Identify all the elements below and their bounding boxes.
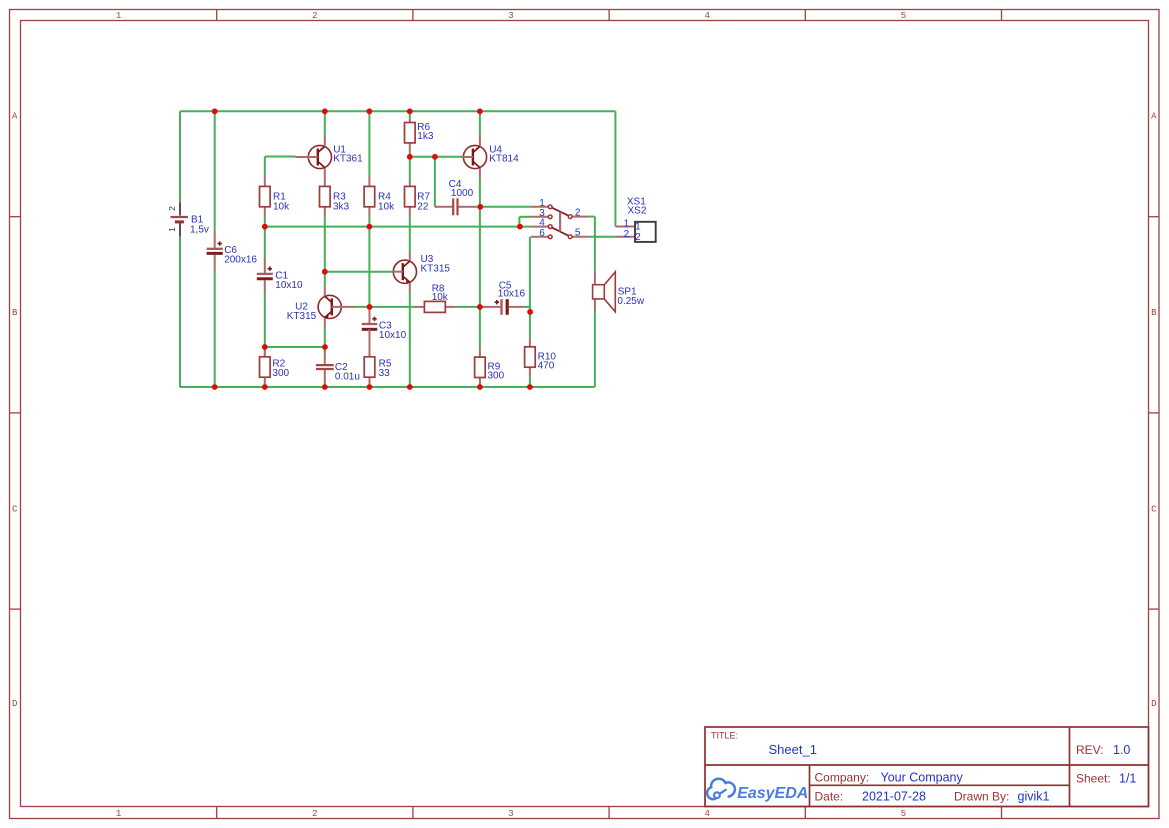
junction C1 / R2 bbox=[262, 344, 268, 350]
switch SA1 arm 4-5 bbox=[552, 227, 569, 236]
svg-text:300: 300 bbox=[272, 368, 289, 379]
wire C1 bottom drop bbox=[264, 294, 266, 347]
wire C6 top connection bbox=[214, 111, 216, 232]
svg-text:A: A bbox=[1151, 112, 1157, 122]
connector XS pin numbers bbox=[624, 218, 642, 243]
svg-text:6: 6 bbox=[539, 228, 545, 239]
transistor U4 bbox=[462, 136, 519, 178]
resistor R3 bbox=[320, 176, 350, 216]
junction top rail / U4 emitter bbox=[477, 108, 483, 114]
wire U2 collector to U3 base bbox=[325, 271, 392, 273]
switch SA1 pin circles bbox=[548, 205, 572, 239]
capacitor C5 (polarized) bbox=[480, 280, 526, 314]
wire R6 bottom link bbox=[409, 152, 411, 157]
junction C4 branch bbox=[432, 154, 438, 160]
wire mid rail to C1 top bbox=[264, 227, 266, 258]
resistor R6 bbox=[405, 117, 434, 152]
wire mid rail bbox=[265, 226, 531, 228]
svg-text:1/1: 1/1 bbox=[1119, 771, 1136, 785]
wire down to U2 collector bbox=[324, 272, 326, 288]
svg-text:5: 5 bbox=[575, 228, 581, 239]
svg-text:KT814: KT814 bbox=[489, 154, 519, 165]
svg-text:3: 3 bbox=[508, 809, 513, 819]
svg-text:10k: 10k bbox=[273, 201, 290, 212]
svg-text:D: D bbox=[12, 699, 17, 709]
svg-text:KT361: KT361 bbox=[333, 154, 363, 165]
wire U2 base to R8 bbox=[354, 306, 414, 308]
title block sheet name bbox=[769, 742, 817, 757]
svg-text:2: 2 bbox=[624, 229, 630, 240]
svg-text:1k3: 1k3 bbox=[417, 131, 434, 142]
capacitor C3 (polarized) bbox=[362, 310, 407, 357]
resistor R9 bbox=[475, 347, 505, 387]
junction ground / C2 bbox=[322, 384, 328, 390]
svg-text:TITLE:: TITLE: bbox=[711, 731, 738, 741]
wire R6/R7 node to U4 base bbox=[410, 156, 462, 158]
svg-text:10x10: 10x10 bbox=[275, 280, 303, 291]
svg-text:1: 1 bbox=[635, 221, 641, 232]
svg-text:0.25w: 0.25w bbox=[617, 296, 644, 307]
wire R7 bottom to U3 collector bbox=[409, 217, 411, 253]
resistor R1 bbox=[260, 176, 291, 216]
svg-text:5: 5 bbox=[901, 809, 906, 819]
title block Date / Drawn By bbox=[815, 789, 1050, 803]
svg-text:1: 1 bbox=[116, 11, 121, 21]
svg-text:1: 1 bbox=[167, 227, 177, 232]
connector XS1/XS2 body bbox=[635, 222, 656, 242]
wire C4 out to SA1 pin1 bbox=[475, 206, 531, 208]
svg-text:givik1: givik1 bbox=[1018, 789, 1050, 803]
svg-text:10k: 10k bbox=[378, 201, 395, 212]
wire to R2 top bbox=[264, 347, 266, 357]
svg-text:D: D bbox=[1151, 699, 1156, 709]
junction ground / R10 bbox=[527, 384, 533, 390]
junction top rail / R4 bbox=[367, 108, 373, 114]
svg-text:4: 4 bbox=[704, 809, 709, 819]
switch SA1 pin leads bbox=[530, 207, 589, 237]
svg-text:1: 1 bbox=[116, 809, 121, 819]
svg-text:B: B bbox=[12, 308, 18, 318]
wire left rail lower (B1 pin1) bbox=[179, 236, 181, 387]
title block TITLE text bbox=[711, 731, 738, 741]
speaker SP1 bbox=[593, 272, 645, 312]
battery B1 pin numbers bbox=[167, 206, 177, 232]
svg-text:10x16: 10x16 bbox=[498, 289, 526, 300]
svg-text:A: A bbox=[12, 112, 18, 122]
junction R3 / U2 collector / U3 base bbox=[322, 269, 328, 275]
wire branch down to C4 bbox=[435, 157, 437, 207]
switch SA1 link bar bbox=[559, 212, 561, 232]
wire left rail upper (B1 pin2) bbox=[179, 111, 181, 202]
svg-text:33: 33 bbox=[379, 368, 391, 379]
svg-text:300: 300 bbox=[488, 370, 505, 381]
wire to C2 top bbox=[324, 347, 326, 352]
wire SA1 pin5 to XS1 pin2 bbox=[589, 236, 615, 238]
battery B1 bbox=[171, 202, 209, 236]
capacitor C4 bbox=[435, 179, 475, 216]
svg-text:0.01u: 0.01u bbox=[335, 372, 360, 383]
resistor R8 bbox=[414, 283, 456, 312]
title block Sheet number bbox=[1076, 771, 1136, 785]
junction U2 emitter / C2 bbox=[322, 344, 328, 350]
svg-text:10k: 10k bbox=[432, 292, 449, 303]
junction C5 right / R10 bbox=[527, 309, 533, 315]
svg-text:REV:: REV: bbox=[1076, 743, 1104, 757]
wire top rail to U4 emitter bbox=[479, 111, 481, 136]
title block Company bbox=[815, 771, 964, 785]
wire top rail to R6 bbox=[409, 111, 411, 117]
svg-text:1: 1 bbox=[624, 218, 630, 229]
svg-text:1.0: 1.0 bbox=[1113, 743, 1130, 757]
switch SA1 arm 1-2 bbox=[552, 208, 569, 216]
junction ground / C6 bbox=[212, 384, 218, 390]
wire U3 emitter to ground bbox=[409, 292, 411, 387]
junction ground / R2 bbox=[262, 384, 268, 390]
resistor R5 bbox=[364, 329, 392, 387]
junction ground / R5 bbox=[367, 384, 373, 390]
svg-text:Drawn By:: Drawn By: bbox=[954, 789, 1009, 803]
svg-text:10x10: 10x10 bbox=[379, 330, 407, 341]
junction top rail / U1 emitter bbox=[322, 108, 328, 114]
svg-text:Company:: Company: bbox=[815, 771, 870, 785]
wire R3 bottom to U2 collector node bbox=[324, 217, 326, 272]
wire node to R10 bbox=[529, 312, 531, 338]
connector XS1/XS2 pin leads bbox=[615, 227, 635, 237]
wire U4 collector down bbox=[479, 178, 481, 207]
svg-text:2: 2 bbox=[635, 232, 641, 243]
EasyEDA logo bbox=[707, 779, 808, 802]
junction mid rail / pin3-4 bbox=[517, 224, 523, 230]
svg-text:1,5v: 1,5v bbox=[190, 224, 209, 235]
junction ground / R9 bbox=[477, 384, 483, 390]
resistor R10 bbox=[525, 338, 557, 377]
wire C6 bottom connection bbox=[214, 271, 216, 387]
junction C4 / U4 collector bbox=[477, 204, 483, 210]
title block border bbox=[705, 727, 1149, 807]
wire U2 emitter down bbox=[324, 327, 326, 348]
wire down to R8/C5 node bbox=[479, 207, 481, 307]
resistor R2 bbox=[260, 347, 290, 387]
svg-text:200x16: 200x16 bbox=[224, 255, 257, 266]
junction ground / U3 emitter bbox=[407, 384, 413, 390]
wire top rail to R4 bbox=[368, 111, 370, 176]
title block REV bbox=[1076, 743, 1130, 757]
svg-text:Date:: Date: bbox=[815, 789, 844, 803]
transistor U3 bbox=[392, 252, 451, 292]
wire SA1 pin2 to SP1 top bbox=[589, 217, 595, 272]
junction mid rail / R4 bbox=[367, 224, 373, 230]
svg-text:C: C bbox=[12, 504, 18, 514]
switch SA1 pin numbers bbox=[539, 198, 581, 239]
transistor U1 bbox=[295, 136, 363, 176]
wire mid rail down to U2 base node bbox=[368, 227, 370, 307]
svg-text:KT315: KT315 bbox=[421, 263, 451, 274]
wire R8 right link bbox=[456, 306, 480, 308]
wire SP1 bottom to ground rail bbox=[594, 312, 596, 388]
wire node to R7 top bbox=[409, 157, 411, 181]
svg-text:Your Company: Your Company bbox=[881, 771, 964, 785]
resistor R7 bbox=[405, 181, 431, 217]
svg-text:22: 22 bbox=[417, 201, 429, 212]
wire ground bottom rail bbox=[180, 386, 595, 388]
wire node down to R9 bbox=[479, 307, 481, 347]
svg-text:1000: 1000 bbox=[451, 188, 474, 199]
wire C1-C2 link bbox=[265, 346, 325, 348]
svg-text:2: 2 bbox=[575, 208, 581, 219]
junction top rail / R6 bbox=[407, 108, 413, 114]
svg-text:3k3: 3k3 bbox=[333, 201, 350, 212]
svg-text:C: C bbox=[1151, 504, 1157, 514]
svg-text:Sheet_1: Sheet_1 bbox=[769, 742, 817, 757]
svg-text:2021-07-28: 2021-07-28 bbox=[862, 789, 926, 803]
svg-text:KT315: KT315 bbox=[287, 311, 317, 322]
svg-text:3: 3 bbox=[508, 11, 513, 21]
wire R4 bottom to mid rail bbox=[368, 217, 370, 227]
wire SA1 pin6 drop to C5/R10 node bbox=[524, 237, 530, 312]
wire R1 bottom to mid rail bbox=[264, 217, 266, 227]
svg-text:470: 470 bbox=[538, 361, 555, 372]
junction R6-R7 node bbox=[407, 154, 413, 160]
svg-text:EasyEDA: EasyEDA bbox=[737, 785, 808, 802]
wire V+ drop to XS1 pin1 bbox=[614, 111, 616, 226]
capacitor C2 bbox=[316, 350, 360, 384]
svg-text:5: 5 bbox=[901, 11, 906, 21]
svg-text:XS2: XS2 bbox=[628, 206, 647, 217]
junction R8 / C5 / R9 bbox=[477, 304, 483, 310]
resistor R4 bbox=[364, 176, 395, 216]
svg-text:B: B bbox=[1151, 308, 1157, 318]
svg-text:4: 4 bbox=[704, 11, 709, 21]
wire R10 bottom to rail bbox=[529, 376, 531, 387]
capacitor C1 (polarized) bbox=[257, 258, 303, 294]
wire V+ top rail bbox=[180, 110, 615, 112]
svg-text:2: 2 bbox=[312, 809, 317, 819]
svg-text:Sheet:: Sheet: bbox=[1076, 771, 1111, 785]
wire C2 bottom to rail bbox=[324, 383, 326, 387]
wire SA1 pin3 to mid rail bbox=[519, 217, 530, 227]
connector XS labels bbox=[627, 197, 647, 217]
wire U1 base to R1 top bbox=[265, 157, 296, 177]
capacitor C6 (polarized) bbox=[207, 232, 258, 271]
svg-text:2: 2 bbox=[167, 206, 177, 211]
junction top rail / C6 bbox=[212, 108, 218, 114]
junction U2 base / C3 bbox=[367, 304, 373, 310]
junction mid rail / R1 / C1 bbox=[262, 224, 268, 230]
svg-text:2: 2 bbox=[312, 11, 317, 21]
transistor U2 bbox=[287, 288, 355, 327]
wire top rail to U1 emitter bbox=[324, 111, 326, 136]
